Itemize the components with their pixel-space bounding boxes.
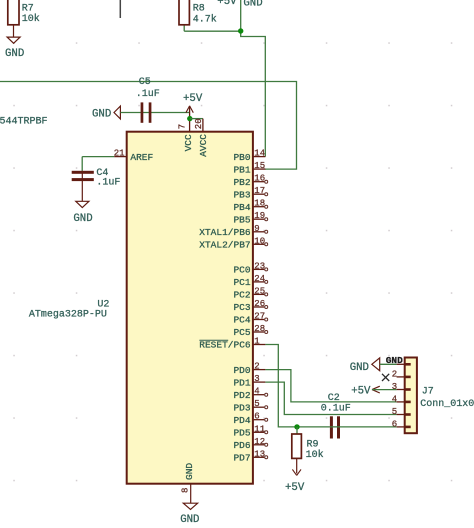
svg-text:20: 20	[194, 118, 204, 129]
svg-text:9: 9	[254, 224, 259, 234]
svg-text:ATmega328P-PU: ATmega328P-PU	[29, 310, 107, 321]
svg-text:16: 16	[254, 174, 265, 184]
svg-text:PC0: PC0	[233, 265, 250, 276]
svg-text:PC5: PC5	[233, 327, 250, 338]
svg-text:0.1uF: 0.1uF	[321, 404, 351, 415]
svg-text:PC1: PC1	[233, 277, 250, 288]
svg-text:GND: GND	[180, 514, 199, 526]
svg-text:7: 7	[177, 124, 187, 129]
svg-text:10k: 10k	[306, 449, 324, 461]
svg-text:18: 18	[254, 199, 265, 209]
svg-text:2: 2	[392, 369, 397, 379]
svg-text:XTAL2/PB7: XTAL2/PB7	[199, 240, 250, 251]
svg-text:10k: 10k	[22, 13, 40, 25]
svg-text:28: 28	[254, 324, 265, 334]
svg-text:5: 5	[392, 407, 397, 417]
svg-text:.1uF: .1uF	[136, 89, 160, 100]
svg-text:4: 4	[392, 394, 397, 404]
svg-text:VCC: VCC	[183, 134, 194, 151]
svg-text:GND: GND	[184, 463, 195, 480]
svg-text:GND: GND	[243, 0, 262, 10]
svg-text:11: 11	[254, 424, 265, 434]
svg-text:19: 19	[254, 211, 265, 221]
svg-text:GND: GND	[386, 355, 403, 366]
svg-text:GND: GND	[5, 48, 24, 60]
svg-text:PD1: PD1	[233, 377, 250, 388]
svg-text:PB4: PB4	[233, 202, 250, 213]
svg-text:PD6: PD6	[233, 440, 250, 451]
svg-text:GND: GND	[350, 362, 369, 374]
svg-text:PC4: PC4	[233, 315, 250, 326]
svg-text:PD4: PD4	[233, 415, 250, 426]
svg-text:+5V: +5V	[217, 0, 237, 8]
svg-text:PD5: PD5	[233, 428, 250, 439]
svg-text:C2: C2	[328, 393, 340, 404]
svg-text:27: 27	[254, 312, 265, 322]
svg-text:4: 4	[254, 387, 259, 397]
svg-text:24: 24	[254, 274, 265, 284]
svg-text:21: 21	[114, 149, 125, 159]
svg-text:12: 12	[254, 437, 265, 447]
svg-text:R7: R7	[22, 4, 34, 15]
svg-text:PB5: PB5	[233, 214, 250, 225]
svg-text:PB3: PB3	[233, 189, 250, 200]
svg-text:23: 23	[254, 261, 265, 271]
svg-text:PB0: PB0	[233, 152, 250, 163]
svg-text:2: 2	[254, 362, 259, 372]
svg-text:Conn_01x06: Conn_01x06	[420, 399, 474, 410]
svg-text:.1uF: .1uF	[96, 178, 120, 189]
svg-text:PB1: PB1	[233, 164, 250, 175]
svg-text:10: 10	[254, 236, 265, 246]
svg-text:PD3: PD3	[233, 402, 250, 413]
svg-text:26: 26	[254, 299, 265, 309]
svg-text:PC2: PC2	[233, 290, 250, 301]
svg-text:AVCC: AVCC	[198, 134, 209, 157]
svg-text:+5V: +5V	[183, 93, 203, 105]
svg-text:3: 3	[392, 382, 397, 392]
svg-text:25: 25	[254, 286, 265, 296]
svg-text:8: 8	[181, 488, 191, 493]
svg-text:+5V: +5V	[285, 482, 305, 494]
svg-text:J7: J7	[422, 386, 434, 397]
svg-text:PD7: PD7	[233, 453, 250, 464]
svg-text:AREF: AREF	[130, 152, 153, 163]
svg-text:13: 13	[254, 449, 265, 459]
svg-text:14: 14	[254, 149, 265, 159]
svg-text:PD0: PD0	[233, 365, 250, 376]
svg-text:PB2: PB2	[233, 177, 250, 188]
svg-text:XTAL1/PB6: XTAL1/PB6	[199, 227, 251, 238]
svg-text:R8: R8	[193, 3, 205, 14]
svg-text:R9: R9	[307, 440, 319, 451]
svg-text:RESET/PC6: RESET/PC6	[199, 340, 251, 351]
svg-text:17: 17	[254, 186, 265, 196]
svg-text:C5: C5	[139, 77, 151, 88]
svg-text:PC3: PC3	[233, 302, 250, 313]
svg-text:4.7k: 4.7k	[193, 14, 217, 26]
svg-text:5: 5	[254, 399, 259, 409]
svg-text:GND: GND	[73, 213, 92, 225]
svg-text:1: 1	[254, 337, 259, 347]
svg-text:PD2: PD2	[233, 390, 250, 401]
svg-text:+5V: +5V	[351, 385, 371, 397]
svg-text:6: 6	[392, 419, 397, 429]
svg-text:3: 3	[254, 374, 259, 384]
svg-text:6: 6	[254, 412, 259, 422]
svg-text:15: 15	[254, 161, 265, 171]
svg-text:GND: GND	[92, 109, 111, 121]
svg-text:544TRPBF: 544TRPBF	[0, 116, 48, 127]
